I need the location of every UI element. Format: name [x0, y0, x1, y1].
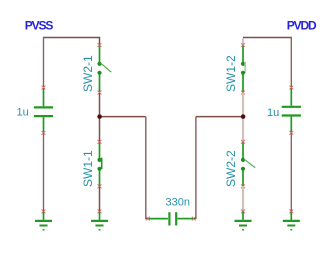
wire left cap top vertical [43, 37, 45, 87]
svg-text:SW1-1: SW1-1 [81, 150, 95, 187]
value label 1u (left) [17, 107, 29, 119]
svg-text:PVDD: PVDD [287, 19, 317, 33]
wire C330 branch to node B (horizontal) [196, 116, 243, 118]
pin marker SW1-2 top [241, 43, 245, 47]
wire SW1-1 to ground [99, 186, 101, 211]
capacitor 1u (right) [282, 88, 301, 132]
value label 1u (right) [267, 107, 279, 119]
value label 330n [166, 196, 190, 208]
wire C330 to node B vertical [194, 117, 196, 219]
pin marker C330 left [146, 217, 150, 221]
pin marker SW2-2 bottom [241, 184, 245, 188]
pin marker ground right cap column [289, 209, 293, 213]
capacitor 1u (left) [34, 88, 53, 133]
node A junction dot [97, 114, 102, 119]
svg-text:SW1-2: SW1-2 [224, 55, 238, 92]
pin marker SW1-1 top [98, 140, 102, 144]
wire SW2-1 top stub [99, 37, 101, 45]
wire SW1-2 to node B (highlighted) [242, 93, 244, 117]
svg-text:1u: 1u [17, 107, 29, 119]
switch SW1-1 (closed) [97, 142, 101, 186]
net label PVSS [25, 19, 54, 33]
label SW2-2 [224, 150, 238, 187]
wire SW2-2 to ground (highlighted) [242, 186, 244, 211]
svg-text:SW2-2: SW2-2 [224, 150, 238, 187]
node B junction dot [241, 114, 246, 119]
wire SW1-2 top stub (highlighted) [242, 38, 244, 45]
ground (right switch column) [235, 212, 252, 230]
label SW1-1 [81, 150, 95, 187]
capacitor 330n [149, 212, 194, 225]
pin marker SW1-1 bottom [98, 184, 102, 188]
pin marker SW1-2 bottom [241, 91, 245, 95]
svg-text:SW2-1: SW2-1 [81, 55, 95, 92]
wire right cap bottom vertical [290, 133, 292, 211]
wire SW2-1 to node A [99, 93, 101, 117]
pin marker SW2-1 bottom [98, 91, 102, 95]
pin marker left cap top [42, 86, 46, 90]
label SW2-1 [81, 55, 95, 92]
wire right cap top vertical [290, 37, 292, 87]
ground (left switch column) [91, 212, 108, 230]
pin marker right cap top [289, 86, 293, 90]
wire node A to SW1-1 [99, 117, 101, 142]
pin marker ground left switch column [98, 209, 102, 213]
label SW1-2 [224, 55, 238, 92]
switch SW2-2 (open) [241, 142, 255, 186]
net label PVDD [287, 19, 317, 33]
wire node A branch vertical down [146, 117, 148, 219]
switch SW2-1 (open) [97, 46, 111, 93]
pin marker left cap bottom [42, 131, 46, 135]
pin marker SW2-1 top [98, 43, 102, 47]
wire node A to C330 (horizontal) [100, 116, 146, 118]
pin marker right cap bottom [289, 131, 293, 135]
ground (left cap column) [35, 212, 52, 230]
svg-text:PVSS: PVSS [25, 19, 54, 33]
svg-text:1u: 1u [267, 107, 279, 119]
wire PVSS rail (left horizontal) [44, 37, 100, 39]
svg-text:330n: 330n [166, 196, 190, 208]
switch SW1-2 (closed) [241, 46, 245, 93]
pin marker SW2-2 top [241, 140, 245, 144]
ground (right cap column) [283, 212, 300, 230]
pin marker ground right switch column [241, 209, 245, 213]
pin marker C330 right [192, 217, 196, 221]
wire node B to SW2-2 (highlighted) [242, 117, 244, 142]
wire PVDD rail (right horizontal) [243, 37, 291, 39]
wire left cap bottom vertical [43, 133, 45, 211]
pin marker ground left cap [42, 209, 46, 213]
